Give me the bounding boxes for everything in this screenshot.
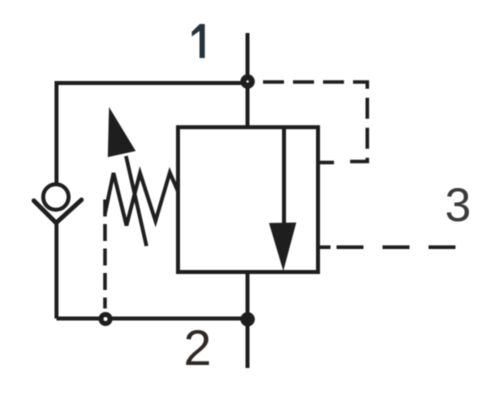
wire left vertical lower [55, 221, 59, 319]
adjustment arrowhead [108, 107, 136, 157]
valve flow arrowhead [269, 223, 296, 272]
wire bottom horizontal [57, 317, 248, 321]
valve flow path shaft [282, 127, 286, 235]
wire left vertical upper [55, 81, 59, 184]
adjustment arrow shaft [126, 156, 147, 246]
svg-text:3: 3 [445, 178, 471, 231]
valve body [178, 127, 318, 272]
pilot line dashed left vertical [103, 200, 107, 309]
wire port 1 vertical [246, 33, 250, 128]
port label 1 [192, 24, 205, 58]
pilot stub upper [318, 161, 334, 165]
pilot line dashed top right [255, 82, 367, 162]
pilot line dashed port 3 [337, 245, 457, 249]
wire port 2 vertical [246, 272, 250, 368]
node junction port1 [240, 74, 254, 88]
svg-text:2: 2 [184, 320, 212, 376]
node pilot drain [99, 312, 113, 326]
spring [105, 173, 178, 226]
pilot stub lower (port 3) [318, 245, 331, 249]
check valve V1 ball [43, 184, 68, 209]
wire top horizontal [57, 81, 248, 85]
check valve V1 seat [34, 200, 82, 223]
node junction port2 [240, 312, 254, 326]
